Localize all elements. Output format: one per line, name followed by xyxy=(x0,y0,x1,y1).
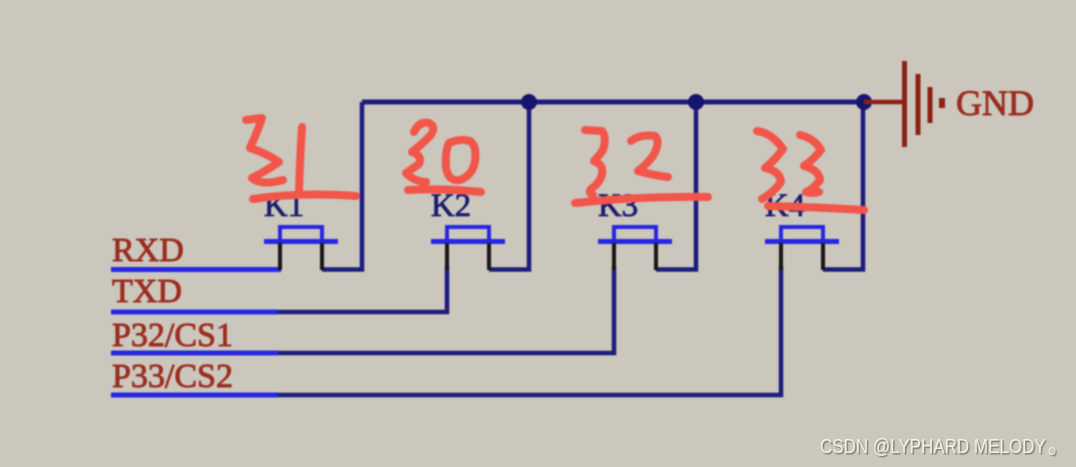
push button K3 xyxy=(598,227,672,270)
watermark xyxy=(820,436,1055,459)
annotation: handwritten 30 xyxy=(406,123,475,182)
node: junction dot at K4 riser / GND xyxy=(856,94,872,110)
wire: K2 right jog and riser xyxy=(489,102,529,270)
wire: RXD terminal line xyxy=(111,267,281,272)
wire: P32/CS1 to K3 left terminal xyxy=(278,266,614,353)
ground xyxy=(905,61,943,147)
annotation: handwritten 33 xyxy=(757,131,821,199)
node: junction dot at K3 riser xyxy=(688,94,704,110)
wire: P33/CS2 terminal line xyxy=(111,393,278,398)
svg-text:RXD: RXD xyxy=(112,232,184,269)
wire: top ground rail xyxy=(362,100,864,105)
annotation: strike through K4 xyxy=(768,206,864,210)
annotation: handwritten 31 xyxy=(246,118,302,191)
svg-text:GND: GND xyxy=(956,83,1034,123)
svg-text:P32/CS1: P32/CS1 xyxy=(112,317,233,354)
wire: TXD to K2 left terminal xyxy=(278,266,447,312)
push button K2 xyxy=(431,227,505,270)
annotation: strike through K3 xyxy=(575,197,708,203)
annotation: handwritten 32 xyxy=(585,130,668,195)
push button K4 xyxy=(765,227,839,270)
wire: TXD terminal line xyxy=(111,310,278,315)
annotation: strike through K1 xyxy=(253,195,356,199)
wire: K3 right jog and riser xyxy=(656,102,696,270)
svg-text:TXD: TXD xyxy=(112,273,182,310)
wire: P33/CS2 to K4 left terminal xyxy=(278,266,781,395)
svg-text:K3: K3 xyxy=(598,188,638,224)
wire: K4 right jog and riser xyxy=(823,102,863,270)
wire: K1 right jog and riser xyxy=(322,102,362,270)
svg-text:P33/CS2: P33/CS2 xyxy=(112,358,233,395)
annotation: underline 30 xyxy=(408,189,481,192)
wire: P32/CS1 terminal line xyxy=(111,351,278,356)
push button K1 xyxy=(264,227,338,270)
wire: GND stub xyxy=(864,100,903,105)
node: junction dot at K2 riser xyxy=(521,94,537,110)
